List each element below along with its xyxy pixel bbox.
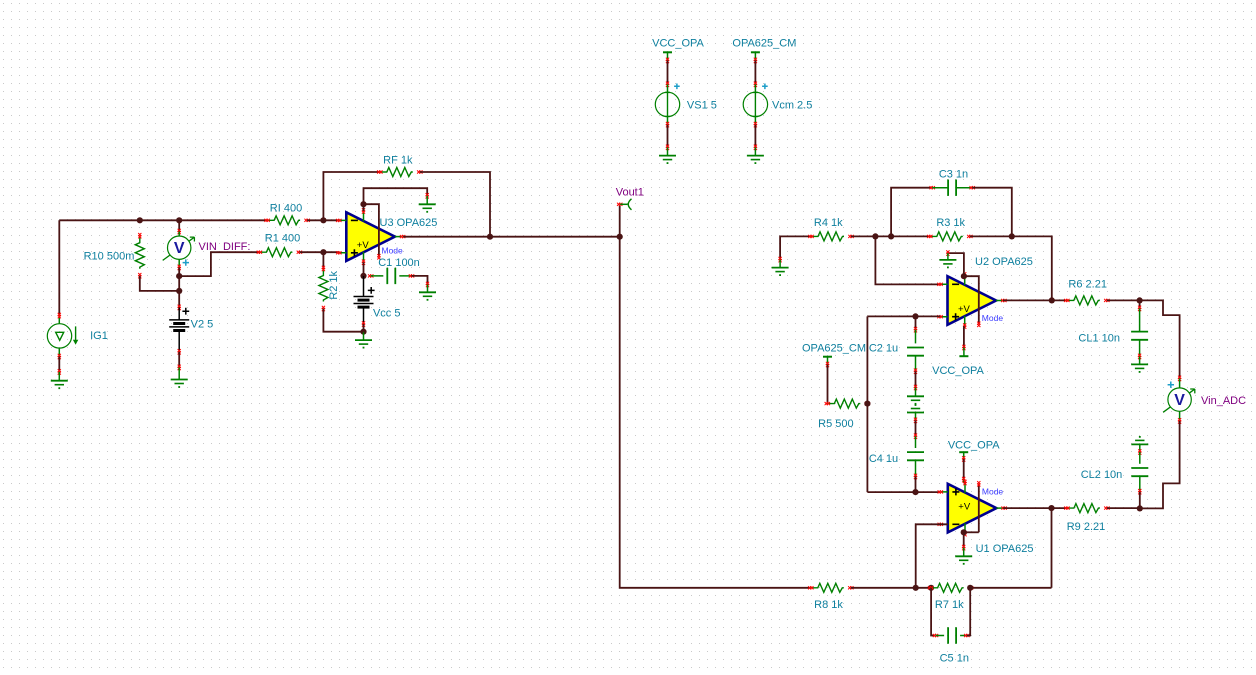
resistor R2	[319, 266, 340, 311]
wire U2 +V pin	[962, 326, 965, 356]
svg-text:R1 400: R1 400	[265, 233, 300, 245]
junction node H	[487, 234, 493, 240]
wire U2 out	[1003, 299, 1067, 301]
wire R2 top	[322, 252, 324, 268]
svg-text:+V: +V	[958, 304, 971, 315]
wire mid rail	[866, 316, 868, 492]
svg-text:V: V	[174, 240, 185, 257]
svg-text:VS1 5: VS1 5	[687, 100, 717, 112]
wire C4 from ground	[914, 413, 917, 439]
wire C3 up	[891, 186, 935, 236]
junction node T	[1048, 505, 1054, 511]
svg-text:OPA625_CM: OPA625_CM	[732, 38, 796, 50]
source Vcm	[743, 84, 812, 118]
svg-text:Mode: Mode	[982, 486, 1004, 496]
svg-text:Mode: Mode	[382, 245, 404, 255]
junction node C	[320, 249, 326, 255]
junction node Vout1	[617, 234, 623, 240]
svg-text:IG1: IG1	[90, 330, 108, 342]
wire R1 to +in	[299, 251, 338, 253]
svg-text:RF 1k: RF 1k	[383, 155, 413, 167]
wire U2 top pin to ground	[946, 250, 964, 276]
junction node N	[1137, 297, 1143, 303]
wire C5 right drop	[967, 588, 970, 636]
wire to U2 -in	[875, 236, 940, 284]
capacitor C4	[869, 436, 924, 492]
svg-text:+V: +V	[357, 240, 370, 251]
svg-text:R8 1k: R8 1k	[814, 599, 843, 611]
capacitor CL2	[1081, 444, 1149, 508]
wire U2 +in	[867, 315, 940, 317]
resistor R3	[927, 217, 972, 241]
wire top input net	[59, 219, 267, 221]
junction node A1	[137, 217, 143, 223]
net terminal VCC_OPA U2	[932, 356, 984, 377]
ground U3 top	[419, 204, 436, 212]
junction node M	[1049, 297, 1055, 303]
wire output net	[403, 236, 620, 238]
svg-text:OPA625_CM: OPA625_CM	[802, 343, 866, 355]
svg-text:R2 1k: R2 1k	[328, 270, 340, 299]
wire Vcc to node	[362, 321, 365, 331]
svg-text:C2 1u: C2 1u	[869, 343, 898, 355]
wire meter stub	[178, 220, 181, 236]
voltmeter VIN_DIFF	[163, 236, 251, 266]
svg-text:VCC_OPA: VCC_OPA	[948, 439, 1000, 451]
ground U1	[955, 556, 972, 564]
ground Vcc	[355, 340, 372, 348]
wire U1 out	[1003, 507, 1067, 509]
junction node D	[320, 217, 326, 223]
svg-text:Vin_ADC: Vin_ADC	[1201, 395, 1246, 407]
wire RF to output	[420, 172, 490, 237]
svg-text:R3 1k: R3 1k	[936, 217, 965, 229]
svg-text:RI 400: RI 400	[270, 202, 302, 214]
resistor R6	[1064, 279, 1109, 305]
wire CM to R5	[827, 365, 829, 404]
op-amp U3	[336, 208, 437, 265]
wire step to R1	[179, 252, 259, 276]
wire U1 -in	[916, 524, 948, 588]
junction node L	[961, 273, 967, 279]
ground CL2	[1131, 436, 1148, 444]
wire meter bottom	[178, 259, 181, 276]
wire Vin_ADC bottom	[1140, 411, 1181, 508]
node Vout1 tag	[616, 186, 644, 210]
ground Vcm	[747, 156, 764, 164]
svg-text:U2 OPA625: U2 OPA625	[975, 256, 1033, 268]
wire RI to -in	[307, 219, 339, 221]
svg-text:R6 2.21: R6 2.21	[1068, 279, 1107, 291]
junction node R	[912, 489, 918, 495]
wire R4 left to ground	[779, 236, 811, 267]
svg-text:C5 1n: C5 1n	[940, 653, 969, 665]
wire Vout1 down to R8	[620, 237, 811, 588]
resistor R5	[818, 399, 870, 430]
wire V2 to ground	[178, 349, 181, 379]
capacitor C5	[933, 627, 970, 664]
wire right down	[1051, 508, 1053, 588]
resistor RF	[377, 155, 422, 177]
wire R9 to CL2	[1107, 507, 1140, 509]
resistor R1	[257, 233, 302, 257]
wire R10 bottom	[140, 276, 179, 291]
capacitor C3	[932, 169, 975, 196]
wire U1 mode pin	[964, 481, 1004, 532]
junction node J	[888, 233, 894, 239]
svg-text:Vout1: Vout1	[616, 186, 644, 198]
svg-text:R7 1k: R7 1k	[935, 599, 964, 611]
junction node I	[872, 233, 878, 239]
junction node U	[913, 585, 919, 591]
junction node G	[360, 329, 366, 335]
svg-text:R10 500m: R10 500m	[84, 251, 135, 263]
resistor R9	[1064, 504, 1109, 533]
svg-text:CL1 10n: CL1 10n	[1078, 333, 1120, 345]
resistor R4	[808, 217, 853, 241]
wire C3 down	[972, 188, 1012, 237]
svg-text:Vcc 5: Vcc 5	[373, 308, 401, 320]
svg-text:C4 1u: C4 1u	[869, 453, 898, 465]
ground V2	[171, 380, 188, 388]
op-amp U2	[937, 256, 1033, 329]
svg-text:VCC_OPA: VCC_OPA	[652, 38, 704, 50]
svg-text:Vcm 2.5: Vcm 2.5	[772, 100, 812, 112]
svg-text:R5 500: R5 500	[818, 418, 853, 430]
junction node K	[1009, 233, 1015, 239]
resistor R7	[928, 583, 973, 611]
op-amp U1	[938, 480, 1034, 555]
ground U2	[939, 260, 956, 268]
junction node A2	[176, 217, 182, 223]
net terminal VCC_OPA U1	[948, 439, 1000, 461]
wire IG1 to ground	[58, 348, 61, 381]
svg-text:Mode: Mode	[982, 313, 1004, 323]
battery Vcc	[354, 276, 401, 324]
capacitor C2	[869, 316, 924, 374]
junction node O	[1137, 505, 1143, 511]
resistor RI	[264, 202, 309, 225]
wire U3 +V pin	[363, 262, 365, 276]
ground C1	[419, 292, 436, 300]
svg-text:R9 2.21: R9 2.21	[1067, 521, 1106, 533]
wire VCC to U1	[962, 459, 965, 483]
capacitor CL1	[1078, 300, 1148, 364]
wire node G to ground	[363, 332, 365, 340]
net terminal OPA625_CM mid	[802, 343, 866, 368]
wire Vout1 stub	[617, 203, 622, 237]
svg-text:C3 1n: C3 1n	[939, 169, 968, 181]
wire R6 to CL1	[1107, 299, 1140, 301]
wire V2 top	[178, 276, 181, 310]
ground CL1	[1131, 364, 1148, 372]
ground R4	[772, 268, 789, 276]
wire R8 to R7	[851, 587, 931, 589]
wire Vcm bottom	[754, 116, 757, 155]
wire U3 mode pin	[364, 204, 404, 259]
junction node B	[176, 273, 182, 279]
ground VS1	[659, 156, 676, 164]
wire C5 left drop	[931, 588, 934, 636]
wire U2 mode pin	[964, 276, 1003, 327]
ground C2	[907, 396, 924, 404]
ground IG1	[51, 381, 68, 389]
wire R3 right down	[970, 236, 1052, 300]
junction node V1	[928, 585, 934, 591]
wire VS1 top	[666, 60, 669, 92]
wire C1 to ground	[412, 276, 430, 292]
svg-text:V: V	[1174, 392, 1185, 409]
wire U3 top pin to ground	[360, 188, 428, 211]
svg-text:U1 OPA625: U1 OPA625	[976, 543, 1034, 555]
svg-text:U3 OPA625: U3 OPA625	[380, 217, 438, 229]
resistor R8	[808, 583, 853, 611]
wire C2 to ground	[914, 371, 917, 396]
wire R7 to corner	[970, 587, 1051, 589]
junction node P	[864, 401, 870, 407]
capacitor C1	[368, 257, 420, 284]
wire VS1 bottom	[666, 116, 669, 155]
svg-text:V2 5: V2 5	[191, 318, 214, 330]
resistor R10	[84, 233, 145, 278]
junction node S	[961, 529, 967, 535]
junction node E	[176, 288, 182, 294]
svg-text:VCC_OPA: VCC_OPA	[932, 365, 984, 377]
junction node Q	[912, 313, 918, 319]
wire R4 to R3	[851, 235, 930, 237]
current source IG1	[47, 324, 108, 348]
wire IG1 drop	[58, 220, 61, 324]
voltmeter Vin_ADC	[1163, 382, 1246, 413]
wire feedback up	[323, 172, 379, 220]
ground C4	[907, 404, 924, 412]
wire U1 bottom pin to ground	[962, 532, 965, 556]
wire R2 bottom	[323, 309, 363, 332]
svg-text:CL2 10n: CL2 10n	[1081, 469, 1123, 481]
wire Vcm top	[754, 60, 757, 92]
wire U1 +in	[867, 491, 940, 493]
source VS1	[655, 84, 717, 118]
net terminal OPA625_CM top	[732, 38, 796, 63]
svg-text:R4 1k: R4 1k	[814, 217, 843, 229]
net terminal VCC_OPA top	[652, 38, 704, 63]
wire to Vin_ADC top	[1140, 300, 1182, 388]
svg-text:+V: +V	[958, 501, 971, 512]
junction node V2	[967, 585, 973, 591]
svg-text:C1 100n: C1 100n	[378, 257, 420, 269]
battery V2	[169, 307, 213, 351]
junction node F	[360, 273, 366, 279]
